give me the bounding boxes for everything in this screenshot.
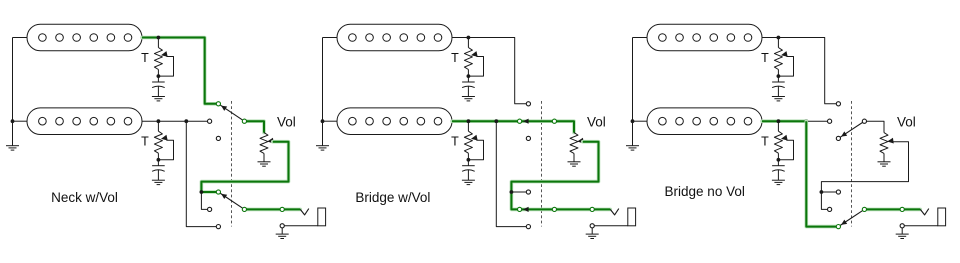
jack sleeve terminal — [900, 224, 904, 228]
junction: bridge tone tap — [157, 119, 161, 123]
junction: bridge line branch — [184, 119, 188, 123]
switch pole 1 arm (selects neck) — [220, 105, 243, 120]
junction: neck tone tap — [777, 36, 781, 40]
capacitor (neck c3 tone) — [777, 76, 779, 82]
junction: ground rail at bridge pickup — [11, 119, 15, 123]
wire: bridge pickup hot to switch pole 1 middle contact — [142, 120, 208, 122]
jack tip terminal — [900, 207, 904, 211]
wiper junction dot (neck c1 tone) — [157, 74, 161, 78]
pickup bridge (bottom) — [647, 108, 762, 135]
capacitor (neck c2 tone) — [467, 76, 469, 82]
volume pot wiper arrow — [887, 138, 894, 144]
wire: wiper feed to switch pole 2 up contact — [821, 191, 836, 193]
switch mechanical link (dashed) — [851, 101, 853, 227]
switch pole 2 middle contact — [208, 207, 212, 211]
wire: wiper feed to switch pole 2 up contact — [511, 191, 526, 193]
tone pot T (bridge c2) — [467, 121, 469, 131]
capacitor (bridge c1 tone) — [157, 160, 159, 166]
wire: volume wiper to switch pole 2 middle contact (green) — [511, 142, 598, 210]
ground (volume pot) — [883, 153, 885, 161]
switch pole 2 up contact — [836, 190, 840, 194]
wire: volume wiper return (unused) — [821, 142, 908, 210]
switch pole 2 middle contact — [828, 207, 832, 211]
svg-text:T: T — [451, 51, 459, 65]
switch pole 1 up contact (neck) — [216, 102, 220, 106]
volume pot Vol resistor — [260, 133, 268, 154]
junction: wiper feed split — [200, 190, 204, 194]
wiper junction dot (bridge c1 tone) — [157, 158, 161, 162]
switch pole 1 down contact — [526, 136, 530, 140]
wire: bridge hot down to switch pole 2 down contact (green) — [806, 121, 836, 226]
pickup bridge (bottom) — [337, 108, 452, 135]
wire: pickups common to ground rail — [633, 37, 648, 39]
junction: wiper feed split — [820, 190, 824, 194]
capacitor (bridge c3 tone) — [777, 160, 779, 166]
ground (jack sleeve) — [901, 228, 903, 234]
svg-text:Neck w/Vol: Neck w/Vol — [51, 190, 118, 205]
switch mechanical link (dashed) — [541, 101, 543, 227]
svg-text:T: T — [761, 51, 769, 65]
tone pot T (neck c3) — [777, 38, 779, 48]
capacitor (neck c1 tone) — [157, 76, 159, 82]
switch pole 2 up contact — [526, 190, 530, 194]
svg-text:Bridge w/Vol: Bridge w/Vol — [355, 190, 430, 205]
switch pole 2 middle contact — [518, 207, 522, 211]
wire: branch to switch pole 1 middle contact — [806, 120, 827, 122]
junction: neck tone tap — [157, 36, 161, 40]
junction: bridge line branch — [494, 119, 498, 123]
jack tip spring contact — [300, 209, 309, 215]
wire: pickups common to ground rail — [323, 37, 338, 39]
ground (volume pot) — [573, 153, 575, 161]
wire: switch pole 2 common to jack tip (green) — [864, 208, 920, 212]
ground (neck c2 tone cap) — [467, 86, 469, 96]
svg-text:T: T — [451, 135, 459, 149]
ground (pickup common rail) — [632, 121, 634, 145]
jack sleeve terminal — [280, 224, 284, 228]
ground (bridge c2 tone cap) — [467, 170, 469, 180]
wire: jack body to sleeve terminal — [904, 225, 938, 227]
junction: bridge tone tap — [777, 119, 781, 123]
switch pole 1 down contact — [216, 136, 220, 140]
ground (jack sleeve) — [281, 228, 283, 234]
junction: neck tone tap — [467, 36, 471, 40]
wire: jack body to sleeve terminal — [594, 225, 628, 227]
ground (pickup common rail) — [322, 121, 324, 145]
volume pot wiper arrow — [267, 138, 274, 144]
wire: bridge line down to switch pole 2 down contact — [186, 121, 216, 226]
wire: switch pole 1 common to volume pot (elbow) — [864, 121, 884, 132]
capacitor (bridge c2 tone) — [467, 160, 469, 166]
wire: jack body to sleeve terminal — [284, 225, 318, 227]
switch pole 2 arm arrowhead — [523, 207, 529, 212]
ground (bridge c3 tone cap) — [777, 170, 779, 180]
wire: bridge pickup hot to switch pole 1 middle contact (green) — [452, 119, 518, 123]
svg-text:Vol: Vol — [277, 115, 296, 130]
ground (neck c3 tone cap) — [777, 86, 779, 96]
volume pot Vol resistor — [570, 133, 578, 154]
wire: neck pickup hot to switch pole 1 up contact (green) — [142, 38, 216, 104]
jack tip terminal — [280, 207, 284, 211]
switch pole 1 down contact — [836, 136, 840, 140]
svg-text:T: T — [761, 135, 769, 149]
switch mechanical link (dashed) — [231, 101, 233, 227]
switch pole 2 down contact — [836, 225, 840, 229]
jack tip spring contact — [920, 209, 929, 215]
switch pole 1 middle contact (bridge) — [208, 119, 212, 123]
wire: bridge pickup hot (green) — [762, 119, 806, 123]
tone pot T (neck c1) — [157, 38, 159, 48]
pickup neck (top) — [337, 24, 452, 51]
wiper junction dot (bridge c3 tone) — [777, 158, 781, 162]
tone pot T (neck c2) — [467, 38, 469, 48]
jack sleeve terminal — [590, 224, 594, 228]
junction: wiper feed split — [510, 190, 514, 194]
wiper junction dot (bridge c2 tone) — [467, 158, 471, 162]
wire: wiper feed to switch pole 2 middle contact — [201, 192, 207, 209]
svg-text:Bridge no Vol: Bridge no Vol — [665, 184, 745, 199]
jack body — [938, 208, 946, 226]
wire: switch pole 1 common to volume pot (elbow) — [554, 121, 574, 132]
wire: switch pole 1 common to volume pot (elbow) — [244, 121, 264, 132]
switch pole 1 common — [862, 119, 866, 123]
pickup neck (top) — [647, 24, 762, 51]
tone pot T (bridge c1) — [157, 121, 159, 131]
wiper junction dot (neck c3 tone) — [777, 74, 781, 78]
ground (jack sleeve) — [591, 228, 593, 234]
volume pot Vol resistor — [880, 133, 888, 154]
junction: ground rail at bridge pickup — [631, 119, 635, 123]
ground (pickup common rail) — [12, 121, 14, 145]
switch pole 2 up contact — [216, 190, 220, 194]
switch pole 2 down contact — [526, 225, 530, 229]
jack body — [628, 208, 636, 226]
switch pole 1 common — [552, 119, 556, 123]
wire: switch pole 1 arm line (green, selected) — [522, 119, 553, 123]
switch pole 1 middle contact (bridge) — [828, 119, 832, 123]
svg-text:Vol: Vol — [897, 115, 916, 130]
switch pole 1 arm arrowhead — [523, 119, 529, 124]
jack tip terminal — [590, 207, 594, 211]
wire: switch pole 2 common to jack tip (green) — [554, 208, 610, 212]
switch pole 1 middle contact (bridge) — [518, 119, 522, 123]
junction: bridge line branch — [804, 119, 808, 123]
wire: neck pickup hot to switch pole 1 up contact — [762, 38, 836, 104]
switch pole 1 common — [242, 119, 246, 123]
ground (volume pot) — [263, 153, 265, 161]
switch pole 1 arm (selects down) — [840, 122, 863, 137]
jack body — [318, 208, 326, 226]
switch pole 2 common — [862, 207, 866, 211]
ground (bridge c1 tone cap) — [157, 170, 159, 180]
switch pole 2 common — [242, 207, 246, 211]
svg-text:Vol: Vol — [587, 115, 606, 130]
svg-text:T: T — [141, 135, 149, 149]
switch pole 2 arm (selects down) — [840, 211, 863, 226]
junction: ground rail at bridge pickup — [321, 119, 325, 123]
wire: switch pole 2 common to jack tip (green) — [244, 208, 300, 212]
wiper junction dot (neck c2 tone) — [467, 74, 471, 78]
jack tip spring contact — [610, 209, 619, 215]
junction: bridge tone tap — [467, 119, 471, 123]
wire: switch pole 2 arm line (green, selected) — [522, 208, 553, 212]
pickup bridge (bottom) — [27, 108, 142, 135]
svg-text:T: T — [141, 51, 149, 65]
switch pole 2 down contact — [216, 225, 220, 229]
ground (neck c1 tone cap) — [157, 86, 159, 96]
volume pot wiper arrow — [577, 138, 584, 144]
switch pole 2 arm (selects up) — [220, 193, 243, 208]
switch pole 1 up contact (neck) — [526, 102, 530, 106]
wire: pickups common to ground rail — [13, 37, 28, 39]
wire: volume wiper to switch pole 2 up contact (green) — [201, 142, 288, 192]
pickup neck (top) — [27, 24, 142, 51]
switch pole 2 common — [552, 207, 556, 211]
wire: neck pickup hot to switch pole 1 up contact — [452, 38, 526, 104]
wire: bridge line down to switch pole 2 down contact — [496, 121, 526, 226]
switch pole 1 up contact (neck) — [836, 102, 840, 106]
tone pot T (bridge c3) — [777, 121, 779, 131]
